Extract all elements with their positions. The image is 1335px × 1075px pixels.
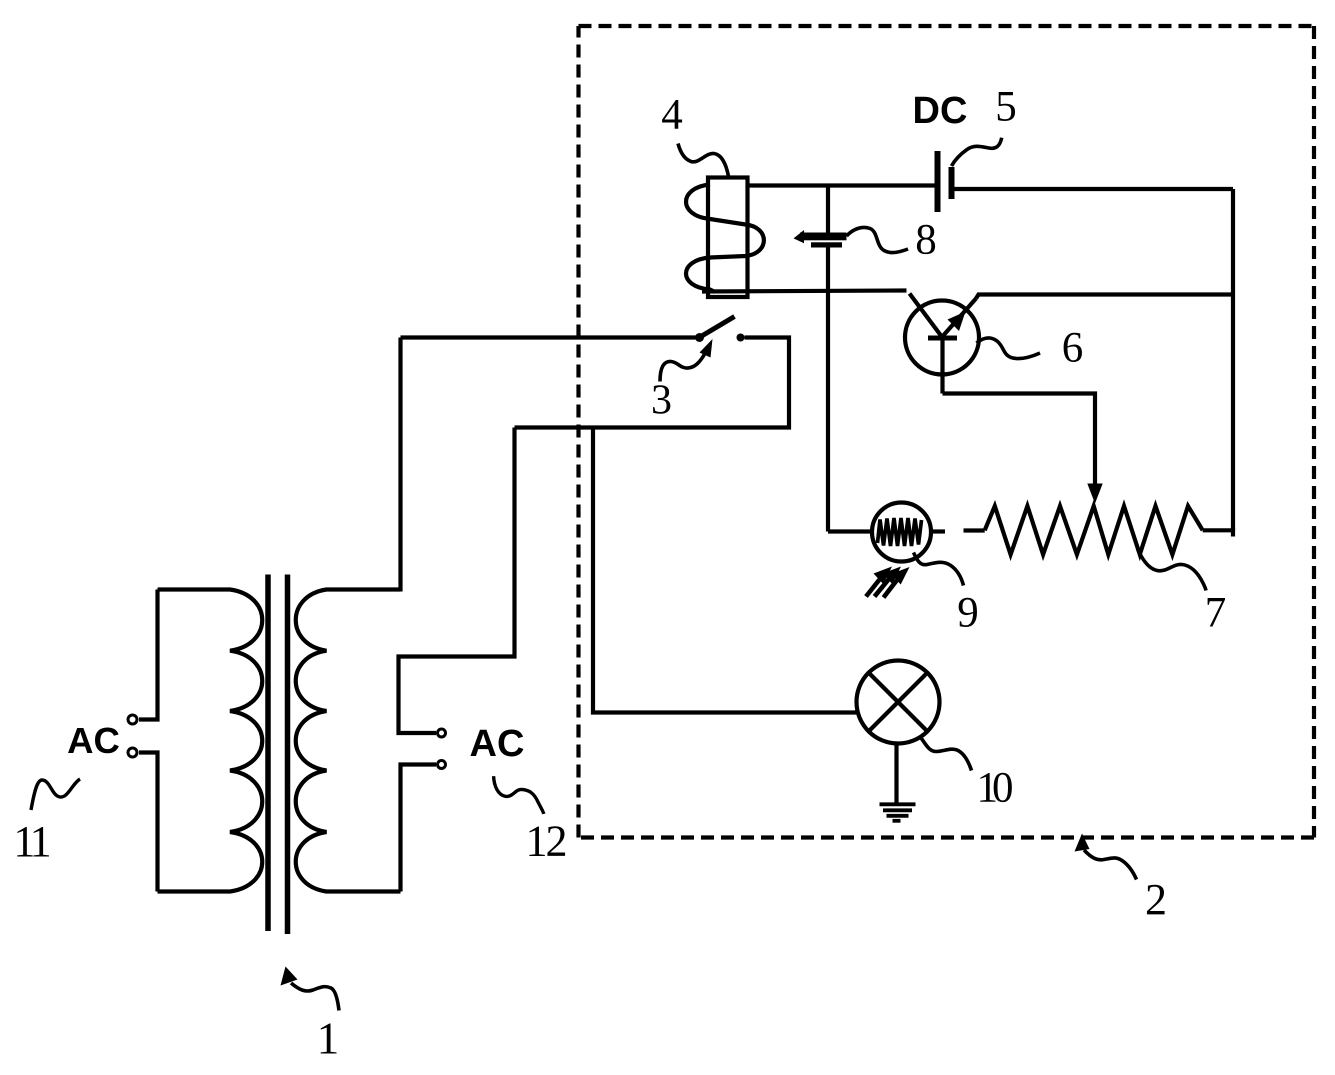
wire : secondary bottom to lower AC tap: [401, 765, 437, 892]
svg-text:7: 7: [1205, 590, 1227, 637]
wire : primary left upper: [139, 590, 158, 720]
light arrow 2: [883, 567, 902, 585]
transformer 1 : primary winding: [158, 590, 263, 892]
svg-text:1: 1: [317, 1014, 340, 1064]
AC output terminal upper (right): [438, 729, 446, 737]
capacitor 8 : top lead: [826, 186, 830, 234]
svg-text:3: 3: [651, 378, 672, 424]
transistor 6 : body circle: [905, 301, 979, 375]
leader squiggle for 12: [494, 776, 544, 814]
wire : secondary top to switch: [398, 338, 402, 592]
svg-text:9: 9: [957, 590, 979, 637]
leader squiggle for 6: [977, 338, 1041, 359]
transformer 1 : core: [268, 575, 288, 935]
svg-text:11: 11: [13, 817, 49, 866]
svg-text:8: 8: [915, 217, 937, 264]
ground symbol: [880, 804, 916, 821]
wire : primary left lower: [139, 753, 158, 892]
transformer 1 : secondary winding: [296, 590, 401, 892]
photoresistor 9 : body circle: [872, 503, 931, 562]
transistor 6 : base bar: [928, 336, 957, 341]
wire : photoresistor to potentiometer (with scan gap): [931, 529, 945, 533]
wire : switch output down and left: [515, 338, 790, 428]
capacitor 8 : bottom plate: [811, 242, 842, 247]
svg-text:4: 4: [661, 92, 683, 139]
relay coil 4 : winding bumps: [686, 185, 764, 292]
transistor 6 : emitter diagonal with arrow: [942, 299, 977, 338]
wiper arrow head onto potentiometer 7: [1087, 484, 1102, 504]
wire : emitter to right rail: [976, 295, 1233, 299]
dashed enclosure box (unit 2): [579, 26, 1315, 838]
wire : switch input (secondary top to pivot): [401, 335, 697, 339]
wire : branch down to lamp: [593, 428, 857, 713]
svg-text:DC: DC: [913, 90, 968, 132]
battery 5 (DC) : long plate: [935, 151, 941, 212]
light arrow 1: [874, 567, 893, 585]
wire : potentiometer right end to rail: [1203, 528, 1235, 532]
capacitor 8 : top plate with arrow tip: [800, 233, 847, 241]
photoresistor 9 : resistive element zigzag: [878, 518, 922, 546]
arrow leader for transformer label 1: [281, 967, 298, 986]
arrow leader for box label 2: [1075, 834, 1090, 852]
leader squiggle for 4: [678, 144, 729, 177]
AC input terminal upper (left): [128, 715, 137, 724]
arrow leader for switch label 3: [700, 339, 713, 358]
transistor 6 : base lead down: [940, 338, 944, 394]
transistor 6 : collector diagonal (from relay wire): [910, 294, 944, 340]
wire : battery to right rail: [955, 187, 1234, 191]
svg-text:2: 2: [1145, 875, 1167, 924]
switch 3 : pivot contact: [695, 333, 704, 342]
leader squiggle for 5: [952, 138, 1002, 166]
wire : relay top to battery: [748, 183, 936, 187]
switch 3 : lever: [700, 317, 735, 338]
leader squiggle for 7: [1138, 549, 1207, 591]
relay coil 4 : core rectangle: [708, 178, 748, 298]
leader tilde for 11: [31, 779, 80, 810]
capacitor 8 : bottom lead down to photoresistor: [826, 248, 830, 532]
wire : right rail vertical: [1231, 189, 1235, 530]
wire : capacitor leg to photoresistor: [828, 529, 872, 533]
lamp 10 : bulb circle: [857, 661, 940, 744]
svg-text:AC: AC: [67, 720, 120, 761]
svg-text:6: 6: [1062, 325, 1084, 372]
svg-text:10: 10: [977, 765, 1013, 812]
AC output terminal lower (right): [438, 761, 446, 769]
potentiometer 7 : zigzag resistor: [985, 506, 1203, 555]
wire : base to wiper arrow: [943, 394, 1096, 487]
svg-text:12: 12: [526, 817, 566, 866]
svg-text:5: 5: [995, 84, 1017, 131]
leader squiggle for 8: [847, 227, 909, 252]
leader squiggle for 9: [914, 553, 964, 586]
lamp 10 : bottom lead: [894, 744, 898, 804]
wire : secondary upper tap: [399, 428, 515, 734]
light arrow 3: [891, 567, 910, 585]
switch 3 : output contact: [737, 334, 745, 342]
lamp 10 : X filament: [869, 673, 928, 732]
svg-text:AC: AC: [470, 723, 525, 765]
AC input terminal lower (left): [128, 748, 137, 757]
battery 5 (DC) : short plate: [949, 167, 955, 199]
leader squiggle for 10: [920, 737, 972, 771]
wire : relay bottom to transistor: [702, 291, 907, 292]
